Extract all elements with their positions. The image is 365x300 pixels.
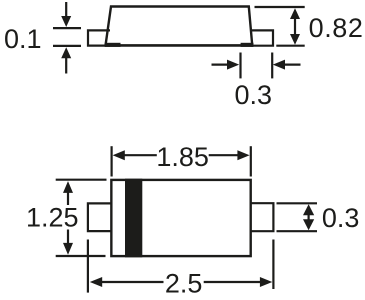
left terminal (top view) [88, 203, 111, 231]
svg-text:0.3: 0.3 [322, 203, 360, 233]
right terminal (top view) [251, 203, 273, 231]
dimension 2.5 right arrow [204, 277, 273, 287]
svg-text:0.3: 0.3 [235, 80, 273, 110]
dimension 0.82 top extension line [255, 6, 305, 8]
dimension 1.25 bottom extension line [56, 255, 106, 257]
dimension 1.25 top extension line [56, 179, 107, 181]
dimension 0.3 side-view left arrow [212, 60, 240, 70]
dimension 1.85 left extension line [110, 146, 112, 176]
dimension 0.1 upper arrow [61, 2, 71, 27]
dimension 0.82 bottom extension line [276, 45, 304, 47]
dimension 0.1 upper extension bar [53, 27, 81, 29]
dimension 2.5 right extension line [272, 240, 274, 290]
package body top view [111, 180, 250, 256]
dimension 0.82 double arrow [290, 8, 300, 45]
package body side view (trapezoid outline) [106, 7, 253, 45]
dimension 0.3 side-view right extension line [271, 53, 273, 79]
svg-text:2.5: 2.5 [165, 269, 203, 299]
svg-text:1.85: 1.85 [156, 142, 209, 172]
left terminal foot [105, 43, 121, 47]
dimension 0.3 top-view lower extension line [277, 230, 318, 232]
dimension 0.3 top-view upper extension line [277, 202, 318, 204]
dimension 0.3 side-view left extension line [239, 53, 241, 79]
right terminal (side view) [251, 30, 273, 45]
seating plane line [105, 44, 254, 47]
dimension 2.5 left extension line [87, 240, 89, 293]
svg-text:1.25: 1.25 [26, 202, 79, 232]
right terminal foot [241, 43, 254, 47]
dimension 0.1 lower arrow [61, 47, 71, 73]
svg-text:0.82: 0.82 [309, 13, 364, 43]
dimension 1.85 right extension line [250, 146, 252, 176]
dimension 2.5 left arrow [90, 277, 164, 287]
svg-text:0.1: 0.1 [4, 24, 42, 54]
dimension 0.1 lower extension bar [53, 45, 81, 47]
dimension 1.85 right arrow [209, 150, 250, 160]
left terminal (side view) [88, 30, 110, 45]
cathode band [125, 179, 142, 258]
dimension 1.25 arrows [63, 181, 73, 255]
dimension 0.3 top-view double arrow [303, 204, 314, 230]
dimension 0.3 side-view right arrow [273, 60, 301, 70]
dimension 1.85 left arrow [113, 150, 157, 160]
